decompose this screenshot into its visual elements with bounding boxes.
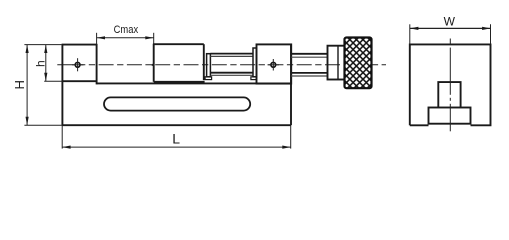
wire: horizontal leg of fixed-jaw hole center mark [72, 64, 84, 66]
screw collar at movable jaw [207, 54, 211, 77]
knurled knob (cross-hatched) [345, 38, 372, 89]
fixed jaw block (left, with hole) [62, 44, 97, 125]
wire: h reference extension line under fixed jaw [44, 80, 62, 82]
svg-text:W: W [444, 15, 456, 29]
hole center mark circle in fixed jaw [75, 62, 80, 67]
dimension Cmax: right arrow [145, 36, 153, 39]
dimension H: dimension line [26, 45, 28, 126]
svg-text:H: H [12, 80, 27, 89]
rear bracket block [257, 44, 292, 83]
svg-text:Cmax: Cmax [114, 24, 139, 36]
knob collar (double boss before knurled knob) [328, 46, 345, 80]
wire: vertical leg of bracket hole center mark [272, 59, 274, 71]
screw shaft (right of bracket, to knob collar) [291, 54, 328, 76]
dimension L: dimension line [62, 146, 291, 148]
hole center mark circle in rear bracket [271, 62, 276, 67]
wire: end view vertical center line (dash-dot) [449, 39, 451, 45]
end view: upper jaw block [438, 82, 460, 107]
screw shaft (between jaw and rear bracket): crest and root lines [210, 54, 253, 76]
flange washer at rear bracket [253, 48, 257, 77]
wire: horizontal leg of bracket hole center mark [268, 64, 280, 66]
wire: vertical leg of fixed-jaw hole center mark [77, 58, 79, 71]
vise base right edge [290, 44, 292, 125]
foot block under flange washer [251, 77, 257, 80]
dimension H: bottom arrow [26, 117, 29, 125]
end view: pedestal base block [429, 108, 471, 124]
dimension W: extension lines [409, 24, 411, 44]
slot: elongated mounting slot in base [104, 97, 250, 110]
dimension L: extension lines [61, 125, 63, 148]
wire: main horizontal center line (screw axis, dash-dot) [57, 64, 80, 66]
vise base bottom edge [62, 124, 291, 126]
dimension Cmax: left arrow [97, 36, 105, 39]
svg-text:h: h [33, 60, 47, 67]
foot block under screw collar [205, 77, 212, 80]
dimension Cmax: extension lines [96, 33, 98, 45]
svg-text:L: L [172, 130, 180, 146]
dimension h: top arrow [44, 45, 47, 53]
dimension W: dimension line [410, 27, 491, 29]
dimension W: left arrow [410, 27, 419, 30]
dimension L: left arrow [62, 146, 70, 149]
dimension W: right arrow [482, 27, 490, 30]
dimension h: bottom arrow [44, 73, 47, 81]
end view body (right) [410, 44, 491, 125]
dimension h: dimension line [45, 45, 47, 82]
dimension Cmax: dimension line [97, 37, 154, 39]
dimension L: right arrow [282, 146, 290, 149]
dimension H: extension lines [24, 44, 61, 46]
node: small center-line dash against movable jaw face [151, 63, 154, 66]
vise base top edge (right of fixed jaw) [97, 82, 291, 84]
dimension H: top arrow [26, 45, 29, 53]
wire: divider line in knob collar [337, 46, 339, 80]
movable jaw block [153, 44, 205, 82]
